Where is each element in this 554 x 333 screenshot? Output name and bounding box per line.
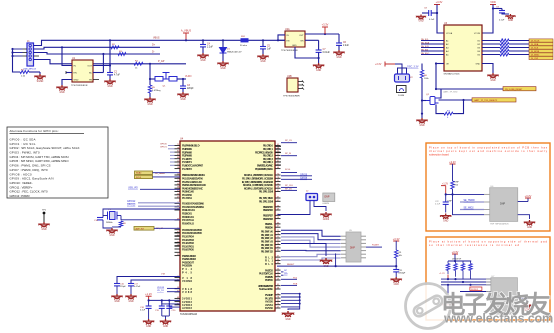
ferrite bead FB1 30ohm bbox=[241, 38, 249, 42]
svg-text:37: 37 bbox=[277, 197, 279, 199]
svg-text:GND: GND bbox=[443, 221, 448, 223]
wire SE_HSMD bbox=[460, 201, 484, 203]
power flag +3.3V U3 VCCA bbox=[434, 4, 440, 6]
ground U3 bbox=[487, 73, 498, 79]
svg-text:GPIO12: GPIO12 bbox=[127, 201, 136, 203]
svg-text:41: 41 bbox=[277, 200, 279, 202]
svg-text:2.2uF: 2.2uF bbox=[343, 45, 349, 47]
svg-text:1uF: 1uF bbox=[267, 48, 272, 50]
svg-text:+3.3V: +3.3V bbox=[322, 23, 329, 27]
svg-text:GPIO0: GPIO0 bbox=[160, 143, 167, 145]
capacitor C4 2.2uF on VBUS bbox=[202, 39, 204, 41]
wire PGP from J1 pin5 bbox=[34, 60, 187, 64]
label net pill row 3 bbox=[529, 46, 553, 49]
wire Q2 drain to pill2 bbox=[439, 99, 473, 101]
svg-text:SE_HSMD: SE_HSMD bbox=[464, 200, 475, 202]
resistor R4 1k series P_GP bbox=[134, 62, 143, 65]
svg-text:58: 58 bbox=[277, 217, 279, 219]
svg-text:SCL0: SCL0 bbox=[136, 177, 142, 179]
svg-text:78: 78 bbox=[177, 147, 179, 149]
wire U3 B5 with series resistor bbox=[482, 54, 500, 56]
ground TP1 bbox=[38, 222, 49, 228]
svg-text:ROW#2: ROW#2 bbox=[471, 289, 479, 291]
svg-text:USB_VID: USB_VID bbox=[128, 188, 138, 190]
node GPIO function table bbox=[7, 127, 108, 198]
svg-text:31: 31 bbox=[277, 250, 279, 252]
svg-text:GND: GND bbox=[109, 235, 114, 237]
op-amp U4 left pin names bbox=[175, 144, 207, 311]
ground C5 bbox=[257, 54, 268, 60]
svg-text:VD_18: VD_18 bbox=[157, 290, 164, 292]
svg-text:ADP_INT: ADP_INT bbox=[136, 227, 145, 230]
wire VCCA bbox=[437, 5, 444, 34]
svg-text:RL0: RL0 bbox=[265, 262, 274, 266]
svg-text:VU88: VU88 bbox=[182, 290, 193, 294]
wire Y1 to U4 XTALO bbox=[121, 216, 180, 220]
label net pill row 5 bbox=[529, 53, 553, 56]
svg-text:28: 28 bbox=[277, 187, 279, 189]
svg-text:15: 15 bbox=[177, 164, 179, 166]
op-amp U2B unused half bbox=[287, 78, 298, 92]
ground C4 bbox=[197, 53, 208, 59]
capacitor C5 1uF bbox=[262, 39, 264, 41]
svg-text:EN: EN bbox=[74, 73, 77, 75]
wire U5 bottom tap bbox=[335, 253, 337, 266]
svg-text:DI_SDA: DI_SDA bbox=[531, 43, 539, 46]
svg-text:71: 71 bbox=[277, 230, 279, 232]
label net pill DONE bbox=[503, 87, 536, 91]
svg-text:GND: GND bbox=[128, 301, 133, 303]
junction VBUS A_VBUS bbox=[185, 39, 187, 41]
svg-text:0.1uF: 0.1uF bbox=[429, 19, 435, 21]
svg-text:VCCA: VCCA bbox=[446, 32, 453, 35]
svg-text:TPS76333DBVR: TPS76333DBVR bbox=[71, 85, 88, 87]
wire U6 right pin2 to ground bbox=[518, 215, 530, 219]
wire U3 A4 bbox=[421, 50, 444, 52]
node note box 2 text bbox=[429, 239, 548, 246]
wire U1 OUT to C2 rail bbox=[93, 65, 110, 67]
svg-text:AVDD2: AVDD2 bbox=[182, 306, 193, 310]
wire EMIF row to ground bbox=[281, 244, 326, 257]
wire EMIF bus row4 bbox=[281, 240, 341, 247]
svg-text:A_VBUS: A_VBUS bbox=[181, 29, 192, 33]
svg-text:GND: GND bbox=[59, 92, 64, 94]
capacitor C21 2200pF bbox=[395, 266, 397, 269]
ground Y1 bbox=[103, 220, 112, 228]
transistor Q2 bbox=[426, 97, 439, 105]
ground C6 bbox=[333, 50, 344, 56]
svg-text:0.01uF: 0.01uF bbox=[323, 52, 331, 54]
wire left stub rows bbox=[170, 151, 175, 153]
wire VCOM rail bbox=[131, 280, 180, 283]
op-amp U6 thermal sensor bbox=[490, 188, 518, 222]
svg-text:P0.7/I2S1: P0.7/I2S1 bbox=[182, 196, 193, 200]
svg-text:27: 27 bbox=[277, 307, 279, 309]
connector J1 USB mini-B bbox=[23, 40, 39, 71]
svg-text:GND: GND bbox=[260, 61, 265, 63]
crystal Y2 24MHz bbox=[397, 86, 407, 93]
svg-text:PA_SDO: PA_SDO bbox=[421, 52, 430, 55]
capacitor C7 0.01uF on NR bbox=[305, 39, 319, 41]
wire U1 GND down to ground bbox=[62, 80, 72, 86]
svg-text:DI_MOSI: DI_MOSI bbox=[531, 51, 540, 53]
resistor R10 DNP box1 bbox=[451, 181, 454, 189]
svg-text:DI_MISO: DI_MISO bbox=[531, 54, 540, 56]
wire PVDD rail bbox=[149, 299, 180, 301]
svg-text:DPSDF4P: DPSDF4P bbox=[452, 259, 462, 261]
capacitor C22 DNP box1 bbox=[445, 194, 447, 202]
svg-text:24: 24 bbox=[277, 303, 279, 305]
svg-text:SCL0: SCL0 bbox=[285, 169, 291, 171]
svg-text:GND: GND bbox=[476, 63, 481, 65]
wire U7 right to ground bbox=[517, 298, 527, 302]
svg-text:24: 24 bbox=[277, 183, 279, 185]
svg-text:PB_SPI1_SOMI: PB_SPI1_SOMI bbox=[259, 200, 273, 204]
ground C19 C20 bbox=[160, 319, 171, 325]
svg-text:68: 68 bbox=[177, 297, 179, 299]
wire Q2 drain to TP pill bbox=[439, 89, 442, 98]
junction VBUS x110 bbox=[109, 39, 111, 41]
wire box2 row3 bbox=[441, 284, 491, 286]
op-amp U3 SN74AVC4T245 level translator bbox=[444, 25, 482, 71]
label net pill row 6 bbox=[529, 56, 553, 59]
svg-text:GND: GND bbox=[41, 229, 46, 231]
svg-text:21: 21 bbox=[277, 300, 279, 302]
label net ROW2 bbox=[470, 287, 482, 291]
svg-text:GND: GND bbox=[419, 125, 424, 127]
wire EMIF bus row7 up bbox=[281, 258, 341, 260]
svg-text:PA_SDI: PA_SDI bbox=[421, 49, 429, 52]
wire J2 pin1 to U4 bbox=[278, 201, 311, 215]
junction box1 bbox=[445, 193, 447, 195]
wire VBUS into U2 bbox=[278, 35, 285, 40]
node note box 2 bbox=[426, 237, 550, 320]
svg-text:+3.3V: +3.3V bbox=[375, 63, 382, 66]
node test point TP1 bbox=[43, 212, 46, 215]
resistor R1 2.2k shield to ground bbox=[20, 71, 29, 74]
wire OE node vertical bbox=[435, 62, 437, 64]
ground AVSS bbox=[282, 311, 294, 317]
wire U3 B1 with series resistor bbox=[482, 40, 500, 42]
svg-text:GND: GND bbox=[292, 45, 297, 47]
svg-text:NR: NR bbox=[300, 41, 304, 43]
svg-text:PA_SCL: PA_SCL bbox=[421, 38, 430, 41]
wire VBUS from J1 pin1 bbox=[34, 40, 286, 45]
svg-text:GND: GND bbox=[336, 57, 341, 59]
svg-text:P3.6/GPIO0: P3.6/GPIO0 bbox=[182, 248, 195, 252]
svg-text:GND: GND bbox=[74, 80, 79, 82]
svg-text:VDD33: VDD33 bbox=[157, 287, 165, 289]
capacitor C20 bbox=[168, 303, 170, 306]
svg-text:TMP TMP461AIRUN: TMP TMP461AIRUN bbox=[490, 222, 509, 225]
svg-text:VBUS: VBUS bbox=[153, 37, 160, 40]
svg-text:GPIO13 : PWM3: GPIO13 : PWM3 bbox=[10, 194, 30, 198]
svg-text:31: 31 bbox=[177, 180, 179, 182]
svg-text:67: 67 bbox=[277, 226, 279, 228]
wire RESETZ bbox=[277, 265, 396, 267]
svg-text:DI_SCLK: DI_SCLK bbox=[531, 40, 540, 42]
svg-text:+3.3V: +3.3V bbox=[393, 237, 400, 241]
ground J2 bbox=[320, 212, 331, 218]
svg-text:75: 75 bbox=[177, 144, 179, 146]
svg-text:4.7uF: 4.7uF bbox=[114, 74, 120, 76]
ground C8 bbox=[416, 15, 426, 20]
wire box2 row1 bbox=[441, 278, 491, 280]
oscillator X2 3-pin resonator bbox=[395, 74, 410, 82]
ground under J1 bbox=[34, 74, 45, 80]
svg-text:GND: GND bbox=[508, 20, 513, 22]
svg-text:PB_EMIF_D2: PB_EMIF_D2 bbox=[261, 249, 274, 253]
svg-text:PO_BUCKBTW_ADVCA: PO_BUCKBTW_ADVCA bbox=[255, 167, 273, 171]
power flag +3.3V pullup bbox=[393, 240, 399, 242]
capacitor C6 2.2uF on 3.3V bbox=[338, 34, 340, 43]
svg-text:24: 24 bbox=[277, 243, 279, 245]
label net pill row 1 bbox=[529, 39, 553, 42]
connector J2 jumper bbox=[306, 194, 318, 201]
wire VCCB bbox=[482, 5, 493, 34]
junction P_GP gate node bbox=[149, 63, 151, 65]
svg-text:220pF: 220pF bbox=[120, 286, 126, 288]
wire box2 row2 bbox=[441, 281, 491, 283]
op-amp U1 TPS76333 LDO bbox=[72, 60, 93, 82]
wire U3 A1 bbox=[421, 40, 444, 42]
svg-text:Alternate Functions for GPIO p: Alternate Functions for GPIO pins: bbox=[10, 129, 59, 133]
svg-text:56: 56 bbox=[277, 275, 279, 277]
wire Y1 to U4 XTALI bbox=[103, 209, 180, 213]
svg-text:27: 27 bbox=[277, 246, 279, 248]
svg-text:GND: GND bbox=[418, 21, 423, 23]
svg-text:24.0M: 24.0M bbox=[398, 95, 404, 97]
svg-text:DP: DP bbox=[284, 270, 288, 272]
svg-text:NC: NC bbox=[89, 73, 93, 75]
wire box2 row4 bbox=[460, 291, 491, 293]
capacitor C19 bbox=[161, 300, 163, 306]
wire OE to DONE pill bbox=[436, 88, 503, 90]
wire U6 right pin to +3.2V bbox=[518, 201, 528, 203]
svg-text:63: 63 bbox=[277, 222, 279, 224]
svg-text:www.elecfans.com: www.elecfans.com bbox=[443, 312, 553, 326]
svg-text:78: 78 bbox=[277, 297, 279, 299]
node note box 1 bbox=[426, 143, 550, 231]
svg-text:DI_SCK: DI_SCK bbox=[531, 47, 539, 49]
wire C19 C20 join bbox=[162, 315, 170, 317]
svg-text:U2A: U2A bbox=[285, 28, 290, 31]
svg-text:TAS3204IPAGR: TAS3204IPAGR bbox=[180, 313, 197, 316]
svg-text:46: 46 bbox=[277, 205, 279, 207]
svg-text:+3.3V: +3.3V bbox=[452, 250, 459, 254]
node DNP shunt bbox=[323, 193, 335, 202]
op-amp U5 EMIF buffer bbox=[346, 232, 361, 262]
ground C16 bbox=[111, 294, 122, 300]
svg-text:68: 68 bbox=[277, 167, 279, 169]
svg-text:0.062S: 0.062S bbox=[323, 203, 330, 205]
ground R5 bbox=[144, 97, 155, 103]
svg-text:88: 88 bbox=[177, 157, 179, 159]
svg-text:47: 47 bbox=[177, 197, 179, 199]
resistor R3 series D- bbox=[118, 53, 126, 56]
svg-text:GND: GND bbox=[285, 319, 290, 321]
svg-text:SMAJ5.0A 5.0V: SMAJ5.0A 5.0V bbox=[227, 50, 242, 53]
capacitor C9 0.1uF VCCB bbox=[492, 7, 494, 9]
label net pill row 2 bbox=[529, 42, 553, 45]
svg-text:SE_WID2: SE_WID2 bbox=[464, 208, 475, 210]
svg-text:37: 37 bbox=[277, 256, 279, 258]
svg-text:74: 74 bbox=[277, 293, 279, 295]
power flag VDD U3 VCCB bbox=[490, 4, 496, 6]
svg-text:D-: D- bbox=[152, 50, 155, 53]
wire box1 L to U6 pin4 bbox=[453, 194, 485, 214]
svg-text:43: 43 bbox=[277, 262, 279, 264]
wire U3 A3 bbox=[421, 47, 444, 49]
svg-text:24MHz: 24MHz bbox=[106, 222, 113, 224]
svg-text:GND: GND bbox=[220, 68, 225, 70]
svg-text:50: 50 bbox=[277, 269, 279, 271]
svg-text:P2.6/XTALO: P2.6/XTALO bbox=[182, 221, 194, 225]
power flag +3.3V at U2 bbox=[324, 33, 326, 35]
svg-text:VCOM4: VCOM4 bbox=[182, 279, 193, 283]
svg-text:0.1uF: 0.1uF bbox=[499, 20, 505, 22]
capacitor C3 220pF on VLDO bbox=[182, 79, 184, 86]
junction VBUS-U1 bbox=[61, 46, 63, 48]
svg-text:30 ohm: 30 ohm bbox=[240, 45, 247, 47]
svg-text:GND: GND bbox=[316, 70, 321, 72]
svg-text:+1.2V: +1.2V bbox=[145, 292, 152, 296]
svg-text:+3.3V: +3.3V bbox=[436, 0, 443, 4]
wire left stub rows mid bbox=[175, 232, 181, 234]
svg-text:subsection board: subsection board bbox=[429, 152, 449, 156]
svg-text:+1.2V: +1.2V bbox=[439, 273, 445, 275]
wire U1 EN stub bbox=[66, 72, 72, 74]
svg-text:FLASH: FLASH bbox=[372, 244, 379, 247]
power flag +3.2V box1 bbox=[450, 163, 456, 165]
ground C9 bbox=[505, 14, 515, 19]
svg-text:GND: GND bbox=[200, 60, 205, 62]
transistor Q1 dual FET bbox=[155, 73, 177, 82]
svg-text:44: 44 bbox=[177, 193, 179, 195]
resistor R6 100k pulldown on OE bbox=[421, 64, 423, 71]
diode D1 TVS SMAJ5.0A bbox=[222, 39, 224, 41]
svg-text:59: 59 bbox=[277, 279, 279, 281]
wire C9 to ground bbox=[502, 13, 509, 14]
svg-text:PB2/GPIO6: PB2/GPIO6 bbox=[263, 208, 274, 212]
svg-text:SP_CS: SP_CS bbox=[285, 140, 292, 142]
svg-text:PA_SCK: PA_SCK bbox=[421, 45, 430, 48]
wire box2 left ground bbox=[447, 285, 449, 301]
resistor RN pullups box2 bbox=[447, 261, 449, 264]
wire D- from J1 pin3 bbox=[34, 53, 161, 55]
svg-text:77: 77 bbox=[277, 237, 279, 239]
ground C3 bbox=[177, 92, 188, 98]
svg-text:SP_CLK: SP_CLK bbox=[285, 185, 294, 187]
wire R1 to ground bbox=[29, 71, 40, 73]
svg-text:thermal pours kept out and mac: thermal pours kept out and machine outsi… bbox=[429, 149, 548, 153]
ground U2 GND bbox=[313, 63, 324, 69]
svg-text:GND: GND bbox=[107, 86, 112, 88]
ground box2 right bbox=[521, 303, 532, 309]
svg-text:82: 82 bbox=[177, 151, 179, 153]
op-amp U7 box2 bbox=[491, 278, 518, 314]
svg-text:so that thermal resistance is: so that thermal resistance is minimal ed bbox=[429, 243, 520, 247]
svg-text:GPIO13: GPIO13 bbox=[127, 204, 136, 206]
svg-text:68: 68 bbox=[277, 288, 279, 290]
svg-text:OUT: OUT bbox=[299, 35, 304, 37]
wire AVSS to ground bbox=[288, 307, 300, 310]
svg-text:DM: DM bbox=[284, 274, 288, 276]
svg-text:11: 11 bbox=[177, 161, 179, 163]
wire USB_VID bbox=[140, 188, 180, 190]
ground box1 bbox=[440, 214, 451, 220]
wire U3 B3 with series resistor bbox=[482, 47, 500, 49]
label net pill ADP_INT bbox=[134, 227, 154, 231]
capacitor C2 4.7uF bbox=[109, 71, 111, 73]
svg-text:DNP: DNP bbox=[500, 203, 505, 206]
svg-text:UART_TP_RXD: UART_TP_RXD bbox=[443, 91, 458, 94]
svg-text:45: 45 bbox=[277, 144, 279, 146]
ground C18 bbox=[143, 319, 154, 325]
capacitor C16 220pF bbox=[114, 284, 120, 286]
wire Q1 left to gate rail bbox=[150, 78, 155, 80]
svg-text:74: 74 bbox=[277, 233, 279, 235]
svg-text:55: 55 bbox=[277, 154, 279, 156]
label net pill UART bbox=[472, 98, 516, 102]
svg-text:PA_SDA: PA_SDA bbox=[421, 42, 430, 45]
ground Q2 rail bbox=[421, 116, 423, 118]
op-amp U4 main controller IC bbox=[180, 141, 275, 311]
svg-text:Place at bottom of board on op: Place at bottom of board on opposing sid… bbox=[429, 239, 548, 243]
svg-text:OSC_3.3V: OSC_3.3V bbox=[407, 66, 419, 69]
wire U3 A5 bbox=[421, 54, 444, 56]
svg-text:U2B: U2B bbox=[287, 75, 292, 78]
svg-text:GND: GND bbox=[163, 326, 168, 328]
wire J1 shield pins to left rail bbox=[23, 48, 28, 50]
svg-text:GND: GND bbox=[180, 99, 185, 101]
wire D+ from J1 pin2 bbox=[34, 47, 161, 49]
svg-text:41: 41 bbox=[177, 190, 179, 192]
svg-text:VLDO: VLDO bbox=[185, 75, 192, 78]
svg-text:GND: GND bbox=[490, 80, 495, 82]
svg-text:GND: GND bbox=[114, 301, 119, 303]
wire EMIF bus row1 bbox=[281, 230, 341, 236]
wire EMIF bus row5 up bbox=[281, 249, 341, 251]
wire right stubs upper bbox=[276, 145, 282, 147]
svg-text:EN: EN bbox=[287, 41, 290, 43]
svg-text:VCCB: VCCB bbox=[474, 33, 481, 35]
wire U3 B4 with series resistor bbox=[482, 50, 500, 52]
resistor R2 series D+ bbox=[111, 46, 119, 49]
node note box 1 text bbox=[429, 146, 548, 157]
svg-text:+3.2V: +3.2V bbox=[525, 194, 532, 198]
ground EMIF bbox=[320, 258, 332, 264]
svg-text:GND: GND bbox=[394, 284, 399, 286]
wire AVSS bundle bbox=[281, 293, 300, 295]
svg-text:74: 74 bbox=[277, 174, 279, 176]
svg-text:TPS73633DRBR: TPS73633DRBR bbox=[283, 96, 300, 98]
svg-text:85: 85 bbox=[177, 154, 179, 156]
resistor R5 1.07Meg pulldown bbox=[149, 79, 151, 85]
wire EMIF bus row2 bbox=[281, 234, 341, 240]
svg-text:21: 21 bbox=[277, 180, 279, 182]
power flag +3.2V right box1 bbox=[525, 197, 531, 199]
svg-text:SGND: SGND bbox=[37, 81, 44, 83]
wire gate Q2 bbox=[422, 100, 426, 102]
wire EMIF bus row3 bbox=[281, 237, 341, 244]
svg-text:+3.2V: +3.2V bbox=[449, 160, 456, 164]
label net SD pills bbox=[135, 171, 153, 174]
wire SE_WID bbox=[460, 209, 484, 211]
svg-text:SDA0: SDA0 bbox=[136, 172, 142, 175]
svg-text:21: 21 bbox=[277, 240, 279, 242]
wire U3 B2 with series resistor bbox=[482, 43, 500, 45]
